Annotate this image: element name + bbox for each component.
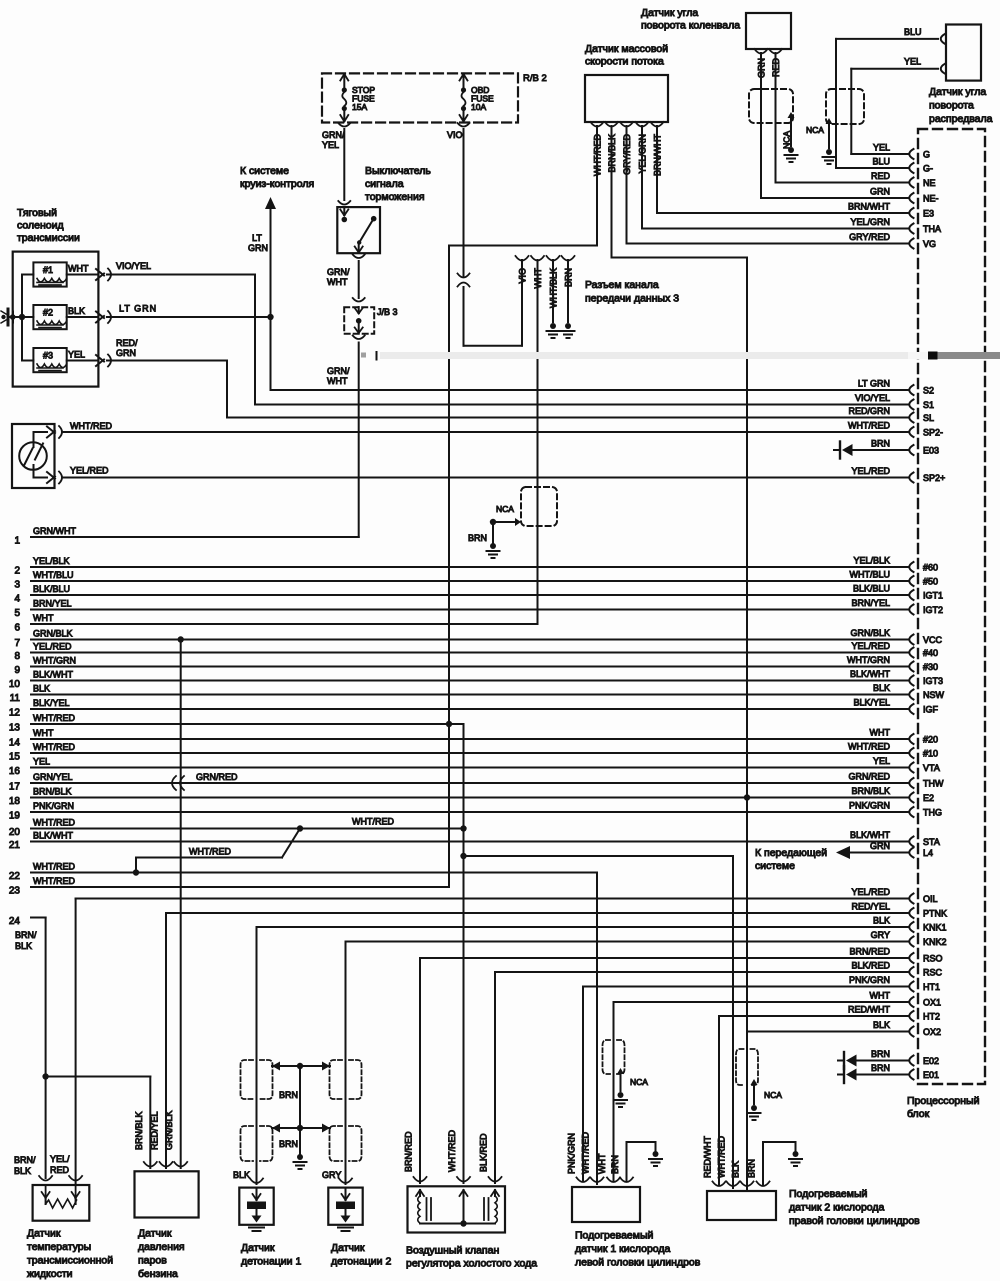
wire YEL/RED from speed sensor to pin SP2+	[34, 466, 909, 484]
svg-text:YEL: YEL	[322, 140, 339, 150]
svg-text:11: 11	[10, 693, 21, 704]
BRN shield drain to ground near SP2	[468, 518, 521, 543]
svg-text:HT1: HT1	[923, 982, 940, 992]
svg-text:BRN/: BRN/	[14, 1155, 36, 1165]
ground at O2 sensor2 BRN	[789, 1151, 802, 1166]
svg-text:сигнала: сигнала	[365, 178, 404, 190]
svg-text:SL: SL	[923, 413, 934, 423]
wire LT GRN from solenoid #2 to pin S2	[107, 304, 908, 391]
svg-text:WHT: WHT	[68, 264, 89, 274]
arrow to cruise control system (К системе круиз-контроля)	[240, 165, 314, 317]
svg-text:блок: блок	[907, 1108, 930, 1120]
ground at data link WHT/BLK	[547, 323, 560, 338]
svg-text:трансмиссии: трансмиссии	[17, 232, 80, 244]
svg-text:левой головки цилиндров: левой головки цилиндров	[575, 1257, 701, 1269]
svg-text:YEL/BLK: YEL/BLK	[33, 556, 70, 566]
svg-text:датчик 2 кислорода: датчик 2 кислорода	[789, 1202, 885, 1214]
svg-text:G: G	[923, 150, 930, 160]
svg-text:BLK: BLK	[14, 1166, 31, 1176]
svg-text:#3: #3	[43, 351, 53, 361]
junction dot wire 22 right / O2 sensor1 WHT-RED riser	[596, 873, 598, 1185]
knock sensor 2 (Датчик детонации 2)	[328, 1179, 391, 1268]
shield ground pigtail at pin E03	[834, 442, 908, 459]
wire crank GRN to pin NE-	[761, 53, 908, 198]
data link connector 3 label (Разъем канала передачи данных 3)	[585, 279, 679, 305]
svg-text:YEL: YEL	[33, 757, 50, 767]
wire RED/GRN from solenoid #3 to pin SL	[107, 338, 908, 418]
svg-text:Датчик: Датчик	[27, 1228, 61, 1240]
wire crank RED to pin NE	[776, 53, 909, 183]
svg-text:BRN/BLK: BRN/BLK	[134, 1111, 144, 1150]
wire BLK/RED riser to pin RSC	[495, 972, 908, 1183]
solenoid #3 output connector	[67, 350, 111, 367]
connector at crank sensor harness (dashed)	[749, 89, 793, 123]
svg-text:E2: E2	[923, 793, 934, 803]
svg-text:PNK/GRN: PNK/GRN	[567, 1133, 577, 1174]
svg-text:GRN/RED: GRN/RED	[848, 772, 890, 782]
svg-text:19: 19	[9, 811, 21, 822]
svg-text:BLK: BLK	[873, 916, 890, 926]
ground at knock shield drain	[294, 1154, 307, 1169]
solenoid coil #3	[33, 348, 66, 372]
svg-text:3: 3	[14, 580, 20, 591]
svg-text:WHT/RED: WHT/RED	[848, 742, 890, 752]
svg-text:YEL/RED: YEL/RED	[851, 887, 890, 897]
svg-text:LT GRN: LT GRN	[858, 379, 890, 389]
svg-text:WHT: WHT	[597, 1153, 607, 1174]
svg-text:Датчик угла: Датчик угла	[641, 7, 698, 19]
svg-text:WHT/BLU: WHT/BLU	[33, 570, 74, 580]
svg-text:RSC: RSC	[923, 968, 943, 978]
svg-text:YEL: YEL	[873, 756, 890, 766]
NCA stub at crank connector	[782, 112, 795, 149]
svg-text:GRN/BLK: GRN/BLK	[850, 628, 890, 638]
svg-text:WHT: WHT	[870, 728, 891, 738]
svg-text:Подогреваемый: Подогреваемый	[575, 1230, 654, 1242]
svg-text:NCA: NCA	[630, 1077, 648, 1087]
svg-text:PNK/GRN: PNK/GRN	[849, 801, 890, 811]
svg-text:бензина: бензина	[138, 1268, 178, 1280]
wire BRN heater ground O2 sensor 1	[627, 1142, 656, 1181]
shielded cable connectors knock sensor 1 lower (dashed)	[241, 1126, 273, 1161]
svg-text:BRN: BRN	[279, 1139, 298, 1149]
ground at BRN drain	[487, 543, 500, 558]
svg-text:WHT/RED: WHT/RED	[33, 876, 75, 886]
svg-text:GRN: GRN	[248, 243, 268, 253]
ground at cam NCA	[823, 149, 836, 164]
svg-text:BLK/WHT: BLK/WHT	[850, 830, 891, 840]
svg-text:RED/WHT: RED/WHT	[703, 1136, 713, 1178]
svg-text:E01: E01	[923, 1070, 939, 1080]
svg-text:GRN: GRN	[870, 187, 890, 197]
svg-text:24: 24	[9, 916, 21, 927]
CPU pin arcs and pin names	[909, 149, 947, 1080]
svg-text:BLK/RED: BLK/RED	[479, 1133, 489, 1172]
svg-text:22: 22	[9, 871, 21, 882]
svg-text:жидкости: жидкости	[27, 1268, 73, 1280]
knock sensor 1 (Датчик детонации 1)	[239, 1179, 301, 1268]
svg-text:соленоид: соленоид	[17, 220, 64, 232]
svg-text:2: 2	[14, 566, 20, 577]
svg-text:поворота: поворота	[929, 100, 974, 112]
svg-text:17: 17	[9, 782, 21, 793]
wire BLK riser knock sensor 1 to pin KNK1	[233, 927, 908, 1184]
svg-text:VIO/YEL: VIO/YEL	[855, 393, 890, 403]
svg-text:15: 15	[9, 752, 21, 763]
svg-text:#40: #40	[923, 648, 938, 658]
brake light switch (Выключатель сигнала торможения)	[337, 165, 431, 258]
svg-text:GRN/: GRN/	[327, 267, 350, 277]
ground at data link BRN	[562, 323, 575, 338]
svg-text:WHT/GRN: WHT/GRN	[33, 656, 76, 666]
MAF sensor pins with labels	[591, 122, 664, 176]
svg-text:WHT/RED: WHT/RED	[33, 742, 75, 752]
svg-text:#50: #50	[923, 577, 938, 587]
junction dot wire13/WHT-RED riser	[446, 721, 464, 727]
svg-text:распредвала: распредвала	[929, 113, 993, 125]
svg-text:BRN/RED: BRN/RED	[849, 947, 890, 957]
svg-text:BRN/RED: BRN/RED	[404, 1131, 414, 1172]
svg-text:YEL/BLK: YEL/BLK	[853, 556, 890, 566]
camshaft position sensor (Датчик угла поворота распредвала)	[929, 25, 993, 126]
wire YEL/RED riser to pin OIL	[76, 899, 908, 1184]
svg-text:BLK: BLK	[33, 684, 50, 694]
wire RED/WHT riser to pin HT2	[719, 1016, 908, 1185]
svg-text:BLK: BLK	[68, 306, 85, 316]
svg-text:YEL/RED: YEL/RED	[851, 466, 890, 476]
svg-text:SP2-: SP2-	[923, 428, 943, 438]
heated oxygen sensor 2 (Подогреваемый датчик 2 кислорода правой головки цилиндров)	[703, 1136, 921, 1227]
wire RED/YEL riser to pin PTNK	[166, 913, 908, 1168]
svg-text:правой головки цилиндров: правой головки цилиндров	[789, 1215, 920, 1227]
svg-text:Датчик массовой: Датчик массовой	[585, 43, 668, 55]
wire PNK/GRN riser to pin HT1	[583, 987, 908, 1182]
svg-text:IGT2: IGT2	[923, 605, 943, 615]
wire 24 BRN/BLK	[9, 916, 46, 1178]
wire WHT riser to pin OX1	[614, 1002, 909, 1181]
speed sensor with switch symbol	[12, 424, 55, 488]
svg-text:OX1: OX1	[923, 998, 941, 1008]
right-side wire colour labels	[847, 143, 890, 1074]
svg-text:E02: E02	[923, 1056, 939, 1066]
svg-text:детонации 2: детонации 2	[331, 1256, 391, 1268]
junction dot E2 row	[744, 794, 750, 800]
ground at O2 sensor1 BRN	[649, 1151, 662, 1166]
svg-text:PTNK: PTNK	[923, 909, 947, 919]
svg-text:поворота коленвала: поворота коленвала	[641, 20, 740, 32]
ground at O2 sensor1 NCA	[614, 1092, 627, 1107]
fuel vapor pressure sensor (Датчик давления паров бензина)	[134, 1110, 199, 1280]
svg-text:WHT/GRN: WHT/GRN	[847, 655, 890, 665]
svg-text:THW: THW	[923, 779, 944, 789]
relay block R/B 2 (dashed)	[322, 73, 547, 123]
wire GRN/YEL from STOP fuse to brake switch	[322, 129, 345, 200]
svg-text:PNK/GRN: PNK/GRN	[33, 801, 74, 811]
svg-text:KNK1: KNK1	[923, 923, 947, 933]
shielded cable connectors knock sensor 1 upper (dashed)	[241, 1060, 273, 1099]
svg-text:BLK/YEL: BLK/YEL	[853, 698, 890, 708]
svg-text:системе: системе	[755, 860, 795, 872]
svg-text:BRN: BRN	[610, 1155, 620, 1174]
svg-text:GRN/BLK: GRN/BLK	[164, 1110, 174, 1150]
svg-text:SP2+: SP2+	[923, 473, 945, 483]
svg-text:LT: LT	[252, 233, 262, 243]
svg-text:RED: RED	[871, 171, 891, 181]
shield ground pigtail at pin E01	[838, 1066, 908, 1083]
svg-text:BRN/WHT: BRN/WHT	[848, 202, 890, 212]
svg-text:датчик 1 кислорода: датчик 1 кислорода	[575, 1243, 671, 1255]
BRN shield drain lower link	[272, 1066, 330, 1154]
svg-text:BLU: BLU	[872, 157, 890, 167]
svg-text:WHT/RED: WHT/RED	[352, 817, 394, 827]
wire WHT/RED from speed sensor to pin SP2-	[34, 421, 909, 438]
svg-text:Датчик угла: Датчик угла	[929, 86, 986, 98]
svg-text:VIO/YEL: VIO/YEL	[116, 261, 151, 271]
svg-text:BLK/RED: BLK/RED	[851, 961, 890, 971]
svg-text:#30: #30	[923, 662, 938, 672]
svg-text:WHT: WHT	[33, 728, 54, 738]
svg-text:BRN/: BRN/	[15, 930, 37, 940]
svg-text:IGT1: IGT1	[923, 591, 943, 601]
svg-text:NCA: NCA	[782, 131, 792, 149]
svg-text:Выключатель: Выключатель	[365, 165, 431, 177]
svg-text:RED: RED	[50, 1165, 70, 1175]
svg-text:5: 5	[14, 608, 20, 619]
svg-text:1: 1	[14, 536, 20, 547]
svg-text:BLK: BLK	[873, 1020, 890, 1030]
crank sensor pins GRN RED	[755, 49, 783, 78]
svg-text:YEL: YEL	[68, 350, 85, 360]
svg-text:Датчик: Датчик	[241, 1242, 275, 1254]
wire VIO/YEL from solenoid #1 to pin S1	[107, 261, 908, 405]
svg-text:GRN/: GRN/	[327, 366, 350, 376]
wire MAF GRY/RED to pin VG	[627, 126, 909, 244]
svg-text:9: 9	[14, 665, 20, 676]
wire GRN/WHT from brake switch to J/B 3	[327, 261, 365, 302]
svg-text:21: 21	[9, 840, 21, 851]
wire BRN/RED riser to pin RSO	[420, 958, 908, 1183]
transmission fluid temperature sensor (Датчик температуры трансмиссионной жидкости)	[14, 1154, 113, 1280]
svg-text:4: 4	[14, 594, 20, 605]
svg-text:NE: NE	[923, 178, 936, 188]
svg-text:BLK/WHT: BLK/WHT	[850, 669, 891, 679]
svg-text:К системе: К системе	[240, 165, 289, 177]
svg-text:S2: S2	[923, 386, 934, 396]
connector at cam sensor harness (dashed)	[826, 89, 864, 124]
svg-text:RED/: RED/	[116, 338, 138, 348]
svg-text:OIL: OIL	[923, 894, 938, 904]
svg-text:YEL/RED: YEL/RED	[33, 642, 72, 652]
svg-text:YEL: YEL	[873, 143, 890, 153]
wire MAF BRN/BLK to E2/OX2 column	[612, 126, 748, 1189]
NCA connector at O2 sensor 2 (dashed)	[736, 1049, 782, 1104]
fuse STOP FUSE 15A	[338, 74, 375, 127]
svg-text:J/B 3: J/B 3	[377, 307, 398, 317]
svg-text:L4: L4	[923, 848, 933, 858]
data link connector pins VIO WHT WHT/BLK BRN	[516, 256, 575, 624]
wire BRN heater ground O2 sensor 2	[763, 1142, 796, 1185]
svg-text:WHT: WHT	[327, 277, 348, 287]
svg-text:BRN/BLK: BRN/BLK	[33, 787, 72, 797]
svg-text:GRN/: GRN/	[322, 130, 345, 140]
svg-text:#20: #20	[923, 735, 938, 745]
svg-text:12: 12	[9, 708, 21, 719]
wire MAF YEL/GRN to pin THA	[642, 126, 908, 229]
svg-text:температуры: температуры	[27, 1241, 91, 1253]
svg-text:торможения: торможения	[365, 191, 425, 203]
svg-text:R/B 2: R/B 2	[523, 73, 547, 84]
svg-text:WHT/RED: WHT/RED	[848, 421, 890, 431]
solenoid coil #1	[33, 262, 66, 286]
svg-text:давления: давления	[138, 1241, 185, 1253]
svg-text:WHT/RED: WHT/RED	[70, 421, 112, 431]
svg-text:#10: #10	[923, 749, 938, 759]
svg-text:WHT/BLU: WHT/BLU	[850, 570, 891, 580]
svg-text:E3: E3	[923, 209, 934, 219]
svg-text:VTA: VTA	[923, 763, 940, 773]
junction dots on wire 20	[297, 825, 467, 831]
svg-text:14: 14	[9, 738, 21, 749]
solenoid #1 output connector	[67, 264, 111, 281]
svg-text:NCA: NCA	[764, 1090, 782, 1100]
ground at O2 sensor2 NCA	[748, 1105, 761, 1120]
ground at crank NCA	[785, 147, 798, 162]
component box: transmission traction solenoid (Тяговый соленоид трансмиссии)	[13, 207, 99, 387]
svg-text:BLK/BLU: BLK/BLU	[853, 584, 890, 594]
svg-text:WHT: WHT	[327, 376, 348, 386]
svg-text:BLK: BLK	[731, 1161, 741, 1178]
svg-text:20: 20	[9, 827, 21, 838]
svg-text:регулятора холостого хода: регулятора холостого хода	[406, 1258, 537, 1270]
svg-text:WHT/RED: WHT/RED	[33, 713, 75, 723]
svg-text:#60: #60	[923, 563, 938, 573]
svg-text:BLK: BLK	[873, 683, 890, 693]
svg-text:LT GRN: LT GRN	[119, 304, 157, 314]
svg-text:GRN/YEL: GRN/YEL	[33, 772, 73, 782]
svg-text:BRN: BRN	[871, 439, 890, 449]
svg-text:трансмиссионной: трансмиссионной	[27, 1255, 113, 1267]
svg-text:GRY: GRY	[322, 1170, 341, 1180]
svg-text:BRN/BLK: BRN/BLK	[851, 786, 890, 796]
svg-text:круиз-контроля: круиз-контроля	[240, 178, 314, 190]
crankshaft position sensor (Датчик угла поворота коленвала)	[641, 7, 791, 49]
solenoid #2 output connector	[67, 306, 111, 323]
svg-text:YEL/GRN: YEL/GRN	[850, 217, 890, 227]
fuse OBD FUSE 10A	[458, 74, 495, 127]
svg-text:BLK/BLU: BLK/BLU	[33, 584, 70, 594]
svg-text:S1: S1	[923, 400, 934, 410]
svg-text:YEL/RED: YEL/RED	[851, 641, 890, 651]
svg-text:E03: E03	[923, 446, 939, 456]
svg-text:IGT3: IGT3	[923, 676, 943, 686]
svg-text:STA: STA	[923, 837, 940, 847]
svg-text:GRN/BLK: GRN/BLK	[33, 629, 73, 639]
svg-text:RED/GRN: RED/GRN	[848, 406, 890, 416]
shielded cable connectors knock sensor 2 upper (dashed)	[330, 1060, 362, 1099]
svg-text:GRN/WHT: GRN/WHT	[33, 526, 76, 536]
svg-text:THA: THA	[923, 224, 941, 234]
NCA connector at O2 sensor 1 (dashed)	[603, 1040, 649, 1091]
svg-text:NCA: NCA	[496, 504, 514, 514]
svg-text:NCA: NCA	[806, 125, 824, 135]
processor unit box (Процессорный блок, dashed)	[907, 129, 985, 1120]
svg-text:YEL: YEL	[904, 57, 921, 67]
svg-text:RSO: RSO	[923, 954, 943, 964]
junction block J/B 3 (dashed)	[344, 307, 397, 339]
svg-text:YEL/RED: YEL/RED	[70, 466, 109, 476]
svg-text:BLK: BLK	[15, 941, 32, 951]
svg-text:#2: #2	[43, 308, 53, 318]
svg-text:6: 6	[14, 623, 20, 634]
svg-text:G-: G-	[923, 164, 933, 174]
BRN shield drain upper link	[272, 1062, 330, 1101]
arrow to transmitting system (К передающей системе) at pin L4	[755, 846, 908, 872]
numbered wires 1-23 with colour labels	[9, 526, 908, 897]
svg-text:Датчик: Датчик	[331, 1242, 365, 1254]
svg-text:7: 7	[14, 638, 20, 649]
svg-text:Подогреваемый: Подогреваемый	[789, 1188, 868, 1200]
mass air flow sensor (Датчик массовой скорости потока)	[585, 43, 668, 122]
solenoid coil #2	[33, 305, 66, 329]
wire cam YEL to pin G	[851, 57, 945, 155]
svg-text:OX2: OX2	[923, 1027, 941, 1037]
svg-text:WHT/RED: WHT/RED	[33, 862, 75, 872]
svg-text:YEL/: YEL/	[50, 1154, 70, 1164]
wire OX2 from BLK riser	[747, 1031, 908, 1033]
svg-text:PNK/GRN: PNK/GRN	[849, 975, 890, 985]
svg-text:BLK/WHT: BLK/WHT	[33, 831, 74, 841]
svg-text:WHT/RED: WHT/RED	[189, 847, 231, 857]
junction dot wire 7 / GRN-BLK riser	[178, 636, 184, 1168]
svg-text:Датчик: Датчик	[138, 1228, 172, 1240]
junction dot wire24 / vapor sensor branch	[42, 1073, 150, 1079]
solenoid left bus wire	[10, 275, 34, 361]
svg-text:THG: THG	[923, 808, 942, 818]
svg-text:BRN: BRN	[747, 1159, 757, 1178]
svg-text:KNK2: KNK2	[923, 937, 947, 947]
svg-text:WHT: WHT	[33, 613, 54, 623]
wire 17 GRN/YEL-GRN/RED with splice to pin THW	[9, 772, 908, 793]
svg-text:8: 8	[14, 651, 20, 662]
WHT/RED riser V2 with branch to idle valve and O2 sensor 2	[460, 724, 733, 1188]
svg-text:WHT: WHT	[870, 991, 891, 1001]
svg-text:WHT/RED: WHT/RED	[33, 818, 75, 828]
svg-text:WHT/RED: WHT/RED	[447, 1130, 457, 1172]
svg-text:GRN: GRN	[116, 348, 136, 358]
svg-text:BLK: BLK	[233, 1170, 250, 1180]
shield ground pigtail at pin E02	[838, 1052, 908, 1069]
svg-text:детонации 1: детонации 1	[241, 1256, 301, 1268]
svg-text:VG: VG	[923, 239, 936, 249]
svg-text:паров: паров	[138, 1255, 167, 1267]
wire BRN/BLK vapor sensor riser	[149, 1077, 151, 1169]
svg-text:BRN: BRN	[279, 1090, 298, 1100]
svg-text:23: 23	[9, 886, 21, 897]
svg-text:BRN: BRN	[871, 1063, 890, 1073]
svg-text:передачи данных 3: передачи данных 3	[585, 293, 679, 305]
svg-text:NSW: NSW	[923, 690, 945, 700]
wire cam BLU to pin G-	[836, 27, 945, 168]
svg-text:BLU: BLU	[904, 27, 922, 37]
wire MAF BRN/WHT to pin E3	[657, 126, 908, 213]
svg-text:10: 10	[9, 679, 21, 690]
svg-text:RED/YEL: RED/YEL	[851, 902, 890, 912]
svg-text:BLK/YEL: BLK/YEL	[33, 698, 70, 708]
svg-text:Воздушный клапан: Воздушный клапан	[406, 1245, 499, 1257]
svg-text:BRN/YEL: BRN/YEL	[851, 598, 890, 608]
wire MAF WHT/RED down-left to WHT/RED net	[449, 126, 597, 887]
svg-text:BRN: BRN	[871, 1049, 890, 1059]
